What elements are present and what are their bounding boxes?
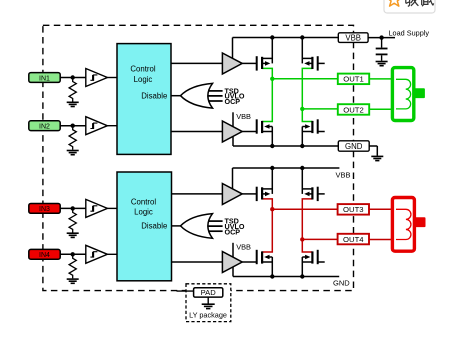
transistor Q3 (low-side left, bridge A): [242, 119, 272, 133]
wire VBB top rail (bridge A): [233, 37, 339, 39]
node bridge A rail junction right: [300, 35, 304, 39]
or-gate G2 (fault OR, channel B): [181, 214, 223, 239]
driver B2 (low-side gate driver): [222, 243, 251, 277]
wire Q4 source vertical: [301, 127, 303, 147]
wire GND rail (bridge A): [233, 145, 339, 147]
pin OUT2: [338, 104, 369, 115]
wire OUT4 to load M2: [369, 239, 393, 241]
svg-text:OCP: OCP: [225, 227, 241, 236]
svg-text:Control: Control: [131, 197, 156, 206]
node IN4 junction: [71, 252, 75, 256]
transistor Q6 (high-side right, bridge B): [302, 187, 324, 201]
pin IN4: [29, 249, 86, 259]
PAD package dashed box: [186, 284, 231, 322]
resistor R2 (IN2 pulldown): [69, 126, 76, 150]
transistor Q4 (low-side right, bridge A): [302, 119, 324, 133]
wire OUT3 to load M2: [369, 208, 393, 210]
block Control Logic B: [117, 172, 222, 281]
ground R3: [67, 233, 79, 237]
svg-text:GND: GND: [345, 142, 363, 151]
pin PAD: [194, 288, 223, 304]
resistor R4 (IN4 pulldown): [69, 254, 76, 278]
svg-text:PAD: PAD: [201, 288, 217, 297]
node IN3 junction: [71, 206, 75, 210]
transistor Q8 (low-side right, bridge B): [302, 250, 324, 264]
wire GND rail (bridge B): [233, 276, 339, 278]
net OUT4 (red) vertical Q6-Q8: [302, 199, 312, 252]
svg-text:GND: GND: [333, 278, 350, 287]
node OUT3 junction: [270, 207, 274, 211]
IC boundary (dashed package outline): [43, 25, 354, 290]
block Control Logic A: [117, 44, 222, 155]
svg-text:IN3: IN3: [39, 206, 50, 213]
node load supply junction: [379, 35, 383, 39]
svg-text:Logic: Logic: [134, 208, 153, 217]
ground R1: [67, 102, 79, 106]
wire OUT2 to load M1: [369, 108, 392, 110]
ground R2: [67, 151, 79, 155]
buffer U1 (Schmitt IN1): [86, 69, 117, 87]
wire OUT4 to pin: [302, 238, 337, 240]
wire Q1 drain vertical: [271, 38, 273, 64]
transistor Q1 (high-side left, bridge A): [242, 56, 272, 70]
driver A2 (low-side gate driver): [222, 112, 251, 146]
or-gate G1 (fault OR, channel A): [181, 83, 223, 108]
svg-text:VBB: VBB: [236, 243, 251, 252]
svg-text:Disable: Disable: [141, 222, 167, 231]
node bridge B rail junction left: [270, 166, 274, 170]
node bridge B gnd junction left: [270, 274, 274, 278]
node bridge B rail junction right: [300, 166, 304, 170]
wire VBB to load supply: [368, 37, 395, 39]
wire Q6 drain vertical: [301, 168, 303, 194]
ground C1: [376, 62, 388, 66]
driver A1 (high-side gate driver): [222, 38, 242, 75]
node bridge A gnd junction right: [300, 144, 304, 148]
favorite button (bookmark widget): [384, 0, 435, 13]
wire PAD left lead: [177, 290, 195, 292]
wire OUT1 to load M1: [369, 78, 392, 80]
svg-text:Logic: Logic: [134, 75, 153, 84]
pin VBB: [338, 33, 368, 43]
node IN2 junction: [71, 124, 75, 128]
pin OUT4: [338, 234, 369, 245]
pin IN1: [29, 73, 86, 83]
ground GND pin: [371, 156, 383, 160]
pin OUT1: [338, 74, 369, 85]
svg-text:Load Supply: Load Supply: [389, 28, 430, 37]
wire OUT1 to pin: [272, 78, 338, 80]
node IN1 junction: [71, 75, 75, 79]
svg-text:Disable: Disable: [141, 92, 167, 101]
node OUT4 junction: [300, 237, 304, 241]
wire OUT2 to pin: [302, 108, 338, 110]
wire OUT3 to pin: [272, 208, 337, 210]
svg-text:VBB: VBB: [345, 33, 361, 42]
svg-text:OUT4: OUT4: [343, 235, 364, 244]
svg-text:IN2: IN2: [39, 124, 50, 131]
wire Q8 source vertical: [301, 257, 303, 277]
net OUT1 (green) vertical Q1-Q3: [262, 68, 272, 121]
wire VBB rail (bridge B): [233, 167, 340, 169]
wire Q5 drain vertical: [271, 168, 273, 194]
load M2 (red motor winding): [392, 198, 425, 252]
net OUT2 (green) vertical Q2-Q4: [302, 68, 312, 121]
svg-text:IN4: IN4: [39, 252, 50, 259]
node OUT2 junction: [300, 107, 304, 111]
svg-text:OCP: OCP: [225, 97, 241, 106]
pin IN2: [29, 121, 86, 131]
net OUT3 (red) vertical Q5-Q7: [262, 199, 272, 252]
buffer U2 (Schmitt IN2): [86, 117, 117, 135]
driver B1 (high-side gate driver): [222, 168, 242, 205]
resistor R1 (IN1 pulldown): [69, 78, 76, 102]
pin GND: [338, 141, 377, 156]
node bridge B gnd junction right: [300, 274, 304, 278]
svg-text:LY package: LY package: [189, 311, 227, 320]
ground R4: [67, 279, 79, 283]
wire Q2 drain vertical: [301, 38, 303, 64]
wire Q7 source vertical: [271, 257, 273, 277]
transistor Q2 (high-side right, bridge A): [302, 56, 324, 70]
svg-text:VBB: VBB: [336, 171, 351, 180]
pin OUT3: [338, 204, 369, 215]
buffer U4 (Schmitt IN4): [86, 245, 117, 263]
buffer U3 (Schmitt IN3): [86, 199, 117, 217]
pin IN3: [29, 204, 86, 214]
svg-text:Control: Control: [130, 64, 155, 73]
svg-text:VBB: VBB: [236, 112, 251, 121]
svg-text:OUT2: OUT2: [343, 105, 364, 114]
transistor Q7 (low-side left, bridge B): [242, 250, 272, 264]
svg-text:OUT3: OUT3: [343, 205, 364, 214]
wire Q3 source vertical: [271, 127, 273, 147]
svg-text:IN1: IN1: [39, 75, 50, 82]
node OUT1 junction: [270, 77, 274, 81]
load M1 (green motor winding): [392, 68, 425, 121]
ground PAD: [202, 304, 215, 308]
svg-text:OUT1: OUT1: [343, 75, 364, 84]
resistor R3 (IN3 pulldown): [69, 208, 76, 232]
node bridge A rail junction left: [270, 35, 274, 39]
capacitor C1 (load supply bypass): [376, 38, 388, 61]
transistor Q5 (high-side left, bridge B): [242, 187, 272, 201]
node bridge A gnd junction left: [270, 144, 274, 148]
